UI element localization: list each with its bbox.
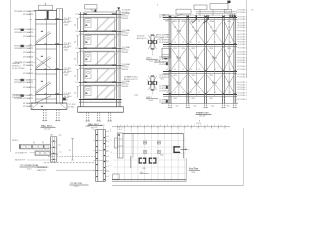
- roof flag marker: [227, 1, 229, 4]
- svg-text:L3: L3: [222, 92, 224, 94]
- svg-text:1/2 DIA A325: 1/2 DIA A325: [23, 13, 33, 16]
- svg-text:3/8: 3/8: [228, 57, 230, 59]
- middle section floor bands: [79, 14, 122, 16]
- middle section base girder: [79, 99, 122, 101]
- svg-text:W18x35: W18x35: [122, 52, 128, 54]
- svg-text:PL: PL: [33, 142, 35, 144]
- elevation top label boxes: [176, 9, 191, 14]
- svg-text:3/8: 3/8: [210, 27, 212, 29]
- svg-text:4: 4: [108, 131, 109, 133]
- svg-text:W18x35: W18x35: [122, 35, 128, 37]
- svg-text:3: 3: [111, 140, 112, 142]
- svg-text:W18: W18: [64, 49, 68, 51]
- svg-text:25-0: 25-0: [176, 105, 179, 107]
- svg-text:L3: L3: [174, 42, 176, 44]
- column detail D1: [151, 35, 154, 49]
- svg-text:W24: W24: [210, 75, 213, 77]
- parapet lines: [196, 11, 237, 13]
- svg-text:DO NOT SCALE: DO NOT SCALE: [12, 67, 25, 70]
- svg-text:1/2 STIFF PL: 1/2 STIFF PL: [159, 42, 169, 44]
- svg-text:9-4: 9-4: [74, 25, 76, 27]
- svg-text:L3: L3: [174, 69, 176, 71]
- svg-text:PROVIDE 1/2 DIA A325: PROVIDE 1/2 DIA A325: [14, 31, 33, 34]
- key plan bracket column dark: [173, 146, 174, 153]
- svg-text:FOR DETAIL: FOR DETAIL: [12, 96, 22, 99]
- left section floor slabs: [35, 19, 62, 21]
- svg-text:4: 4: [108, 161, 109, 163]
- svg-text:T.O. STL: T.O. STL: [64, 18, 71, 20]
- svg-text:3"=1-0: 3"=1-0: [27, 168, 32, 170]
- svg-text:1/2 STIFF PL: 1/2 STIFF PL: [159, 102, 169, 104]
- svg-text:L3: L3: [214, 69, 216, 71]
- svg-text:L3: L3: [182, 69, 184, 71]
- middle section footing: [78, 106, 124, 108]
- elevation floor bands: [163, 17, 237, 19]
- svg-text:W24: W24: [210, 48, 213, 50]
- svg-text:4: 4: [108, 171, 109, 173]
- svg-text:L3: L3: [229, 92, 231, 94]
- svg-text:5: 5: [111, 165, 112, 167]
- mid-storey gusset marks: [177, 30, 181, 31]
- svg-text:T.O.S EL 1: T.O.S EL 1: [238, 12, 246, 14]
- svg-text:T.O.S EL 1: T.O.S EL 1: [238, 62, 246, 64]
- svg-text:1/4"=1-0": 1/4"=1-0": [44, 128, 51, 130]
- elevation intermediate posts: [178, 18, 180, 97]
- svg-text:BOLT LINE: BOLT LINE: [50, 154, 58, 156]
- left wall section: [39, 5, 53, 10]
- svg-text:W24: W24: [192, 21, 195, 23]
- svg-text:W24: W24: [182, 48, 185, 50]
- svg-text:W18: W18: [64, 74, 68, 76]
- elevation columns: [168, 15, 170, 103]
- column detail D2: [151, 76, 154, 90]
- svg-text:T.O. STL: T.O. STL: [64, 68, 71, 70]
- svg-text:1.8 - 3: 1.8 - 3: [118, 129, 123, 131]
- svg-text:PROVIDE 1/2 DIA A325: PROVIDE 1/2 DIA A325: [14, 81, 33, 84]
- svg-text:3"=1-0: 3"=1-0: [149, 100, 154, 102]
- svg-text:W18x35: W18x35: [122, 18, 128, 20]
- svg-text:A325 BOLT: A325 BOLT: [137, 37, 146, 40]
- svg-text:T.O.S EL 1: T.O.S EL 1: [238, 69, 246, 71]
- svg-text:C8x11: C8x11: [86, 126, 91, 128]
- middle wall section: [85, 5, 98, 9]
- svg-text:C8x11: C8x11: [100, 125, 105, 127]
- svg-text:W24: W24: [174, 21, 177, 23]
- svg-text:#8: #8: [251, 10, 253, 12]
- key plan tower bump: [115, 138, 118, 148]
- svg-text:T.O.S EL 1: T.O.S EL 1: [238, 54, 246, 56]
- svg-text:W24: W24: [228, 21, 231, 23]
- svg-text:9-4: 9-4: [74, 93, 76, 95]
- svg-text:9-4: 9-4: [74, 42, 76, 44]
- svg-text:L3: L3: [190, 42, 192, 44]
- corner detail vertical member: [50, 137, 52, 162]
- svg-text:1/2 DIA A325: 1/2 DIA A325: [23, 55, 33, 58]
- svg-text:L3: L3: [229, 42, 231, 44]
- svg-text:EA SIDE TYP: EA SIDE TYP: [15, 159, 26, 162]
- svg-text:4: 4: [108, 166, 109, 168]
- svg-text:1/2 DIA A325: 1/2 DIA A325: [23, 72, 33, 75]
- svg-text:4: 4: [108, 146, 109, 148]
- svg-text:L3: L3: [174, 92, 176, 94]
- svg-text:L3: L3: [182, 42, 184, 44]
- svg-text:L3: L3: [214, 92, 216, 94]
- svg-text:L3: L3: [222, 42, 224, 44]
- svg-text:W18x35: W18x35: [122, 69, 128, 71]
- column top dark bars: [230, 14, 231, 18]
- svg-text:T.O.S EL 1: T.O.S EL 1: [238, 66, 246, 68]
- svg-text:3/8: 3/8: [174, 27, 176, 29]
- svg-text:L4: L4: [204, 21, 206, 23]
- key plan grid: [117, 129, 119, 181]
- svg-text:T.O.S EL 1: T.O.S EL 1: [238, 30, 246, 32]
- splice detail leader note: [48, 156, 95, 158]
- elevation X bracing: [170, 20, 188, 45]
- corner plan band 1: [20, 144, 50, 149]
- svg-text:PL: PL: [42, 142, 44, 144]
- svg-text:NTS: NTS: [192, 172, 195, 174]
- left section footing: [31, 102, 67, 104]
- svg-text:L3: L3: [198, 69, 200, 71]
- svg-text:W24: W24: [210, 98, 213, 100]
- svg-text:1/4"=1-0": 1/4"=1-0": [199, 116, 206, 118]
- svg-text:1/2 STIFF PL: 1/2 STIFF PL: [159, 17, 169, 19]
- svg-text:4: 4: [108, 176, 109, 178]
- svg-text:3/8: 3/8: [228, 27, 230, 29]
- svg-text:L3: L3: [206, 69, 208, 71]
- svg-text:(TYP): (TYP): [134, 95, 139, 97]
- key plan stair tower: [118, 133, 124, 158]
- svg-text:L3: L3: [214, 42, 216, 44]
- svg-text:8: 8: [157, 4, 158, 6]
- svg-text:W24: W24: [192, 48, 195, 50]
- svg-text:W18: W18: [64, 24, 68, 26]
- svg-text:25-0: 25-0: [193, 105, 196, 107]
- left section dim chain: [30, 11, 32, 103]
- svg-text:TYP: TYP: [59, 135, 62, 137]
- svg-text:EL 100-0: EL 100-0: [64, 71, 71, 73]
- middle section piles: [86, 112, 88, 121]
- svg-text:9-4: 9-4: [74, 59, 76, 61]
- key plan interior wall: [130, 156, 132, 168]
- corner plan band 2: [35, 151, 50, 156]
- svg-text:3"=1-0: 3"=1-0: [74, 186, 79, 188]
- left section stair flights: [36, 33, 51, 44]
- svg-text:C8x: C8x: [50, 134, 53, 136]
- svg-text:W24: W24: [174, 48, 177, 50]
- svg-text:T.O.S EL 1: T.O.S EL 1: [238, 19, 246, 21]
- svg-text:L3: L3: [182, 92, 184, 94]
- middle section storey panels: [84, 18, 115, 31]
- sheet border: [10, 0, 12, 152]
- svg-text:L3: L3: [190, 69, 192, 71]
- svg-text:4: 4: [108, 156, 109, 158]
- svg-text:PROVIDE 1/2 DIA A325: PROVIDE 1/2 DIA A325: [14, 47, 33, 50]
- svg-text:5: 5: [188, 149, 189, 151]
- svg-text:T.O.S EL 1: T.O.S EL 1: [238, 95, 246, 97]
- elevation base line: [161, 103, 238, 105]
- key plan dimension row: [112, 126, 230, 128]
- svg-text:W24: W24: [174, 98, 177, 100]
- svg-text:25-0: 25-0: [227, 105, 230, 107]
- svg-text:L3: L3: [206, 92, 208, 94]
- svg-text:L3: L3: [166, 69, 168, 71]
- svg-text:L4: L4: [198, 21, 200, 23]
- svg-text:1/2 DIA A325: 1/2 DIA A325: [23, 64, 33, 67]
- svg-text:1-0: 1-0: [59, 151, 61, 153]
- svg-text:36: 36: [69, 150, 71, 152]
- splice detail dim line: [72, 139, 74, 161]
- key plan lower-left room: [113, 174, 120, 179]
- key plan building outline: [123, 133, 183, 135]
- svg-text:W12: W12: [161, 79, 164, 81]
- svg-text:T.O.S EL 1: T.O.S EL 1: [238, 99, 246, 101]
- svg-text:L4: L4: [178, 21, 180, 23]
- svg-text:W24: W24: [192, 75, 195, 77]
- svg-text:T.O.S EL 1: T.O.S EL 1: [238, 89, 246, 91]
- splice detail channels: [95, 130, 97, 182]
- svg-text:25-0: 25-0: [211, 105, 214, 107]
- svg-text:W24: W24: [174, 75, 177, 77]
- svg-text:T.O. STL: T.O. STL: [64, 43, 71, 45]
- svg-text:1/2 STIFF PL: 1/2 STIFF PL: [159, 91, 169, 93]
- svg-text:5x: 5x: [59, 145, 61, 147]
- svg-text:4: 4: [108, 151, 109, 153]
- svg-text:5 @ 25: 5 @ 25: [196, 123, 201, 125]
- left section cut marks: [21, 29, 24, 31]
- svg-text:L3: L3: [229, 69, 231, 71]
- svg-text:W12: W12: [161, 38, 164, 40]
- svg-text:4: 4: [108, 136, 109, 138]
- svg-text:N: N: [199, 121, 200, 123]
- svg-text:1/2 STIFF PL: 1/2 STIFF PL: [159, 64, 169, 66]
- svg-text:W18x35: W18x35: [122, 86, 128, 88]
- key plan bottom boundary: [112, 179, 186, 181]
- svg-text:L3: L3: [190, 92, 192, 94]
- svg-text:4: 4: [111, 152, 112, 154]
- svg-text:1/2 DIA A325: 1/2 DIA A325: [23, 105, 33, 108]
- svg-text:3"=1-0: 3"=1-0: [149, 60, 154, 62]
- key plan braced channels dark: [139, 158, 140, 164]
- svg-text:A325 BOLTS TYP: A325 BOLTS TYP: [124, 78, 138, 81]
- key plan column marks: [144, 141, 147, 144]
- svg-text:L3: L3: [222, 69, 224, 71]
- svg-text:GENERAL: GENERAL: [12, 62, 20, 65]
- svg-text:PROVIDE 1/2 DIA A325: PROVIDE 1/2 DIA A325: [14, 10, 33, 13]
- svg-text:(5/5): (5/5): [143, 168, 147, 170]
- svg-text:L3: L3: [198, 42, 200, 44]
- svg-text:3/8: 3/8: [228, 82, 230, 84]
- svg-text:NOTE 3: NOTE 3: [12, 140, 18, 142]
- left section piles: [43, 110, 45, 121]
- svg-text:(5/5): (5/5): [160, 155, 164, 157]
- svg-text:T.O.S EL 1: T.O.S EL 1: [238, 76, 246, 78]
- svg-text:T.O.S EL 1: T.O.S EL 1: [238, 47, 246, 49]
- column elevation D1a: [162, 48, 170, 58]
- svg-text:W24: W24: [192, 98, 195, 100]
- svg-text:W24: W24: [210, 21, 213, 23]
- svg-text:EL 100-0: EL 100-0: [64, 46, 71, 48]
- svg-text:T.O. STL: T.O. STL: [64, 93, 71, 95]
- roof arrow wedges: [196, 15, 197, 19]
- svg-text:W24: W24: [182, 21, 185, 23]
- svg-text:T.O.S EL 1: T.O.S EL 1: [238, 44, 246, 46]
- svg-text:W24: W24: [228, 48, 231, 50]
- svg-text:1/2 GUSSET PL: 1/2 GUSSET PL: [15, 152, 27, 154]
- svg-text:1/2 DIA A325: 1/2 DIA A325: [23, 35, 33, 38]
- svg-text:4: 4: [108, 141, 109, 143]
- left section top dark bar: [47, 11, 49, 20]
- svg-text:EL 88-0: EL 88-0: [69, 107, 75, 109]
- svg-text:9-4: 9-4: [74, 76, 76, 78]
- svg-text:3/8: 3/8: [192, 27, 194, 29]
- svg-text:1/2 DIA A325: 1/2 DIA A325: [23, 51, 33, 54]
- svg-text:EL 100-0: EL 100-0: [64, 21, 71, 23]
- svg-text:L3: L3: [206, 42, 208, 44]
- svg-text:W18: W18: [165, 20, 168, 22]
- svg-text:1/2 DIA A325: 1/2 DIA A325: [23, 86, 33, 89]
- elevation piles: [168, 97, 170, 108]
- svg-text:T.O.S EL 1: T.O.S EL 1: [238, 27, 246, 29]
- svg-text:1/2 DIA A325: 1/2 DIA A325: [23, 102, 33, 105]
- svg-text:L3: L3: [198, 92, 200, 94]
